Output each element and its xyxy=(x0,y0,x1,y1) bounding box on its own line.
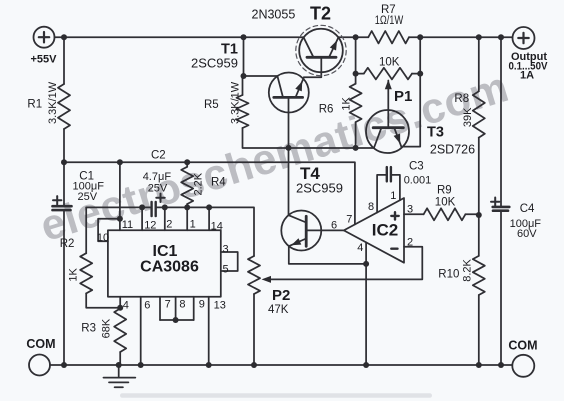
svg-text:R5: R5 xyxy=(204,99,219,111)
svg-text:6: 6 xyxy=(331,220,337,232)
svg-text:R8: R8 xyxy=(454,93,469,105)
svg-text:3.3K/1W: 3.3K/1W xyxy=(47,81,59,124)
svg-text:CA3086: CA3086 xyxy=(140,259,199,276)
svg-text:R2: R2 xyxy=(60,238,75,250)
svg-text:8.2K: 8.2K xyxy=(462,259,474,282)
svg-text:2.2K: 2.2K xyxy=(193,172,205,195)
svg-text:4: 4 xyxy=(123,299,129,311)
svg-text:13: 13 xyxy=(214,300,226,312)
svg-text:R1: R1 xyxy=(27,98,42,110)
svg-text:12: 12 xyxy=(144,219,156,231)
svg-text:2N3055: 2N3055 xyxy=(252,8,296,22)
svg-text:COM: COM xyxy=(508,339,537,353)
svg-text:R3: R3 xyxy=(81,323,96,335)
svg-text:10K: 10K xyxy=(379,57,400,69)
svg-text:11: 11 xyxy=(122,219,133,231)
svg-text:39K: 39K xyxy=(462,107,474,127)
svg-text:4: 4 xyxy=(357,242,363,254)
svg-text:1Ω/1W: 1Ω/1W xyxy=(375,15,404,27)
svg-text:14: 14 xyxy=(211,220,223,232)
svg-text:T2: T2 xyxy=(310,4,331,24)
svg-text:C3: C3 xyxy=(409,161,424,173)
svg-text:+55V: +55V xyxy=(31,54,58,66)
svg-text:R10: R10 xyxy=(438,269,459,281)
svg-text:68K: 68K xyxy=(101,318,113,338)
svg-text:10K: 10K xyxy=(435,197,456,209)
svg-text:4.7μF: 4.7μF xyxy=(143,171,172,183)
svg-text:P2: P2 xyxy=(272,287,290,304)
svg-text:2: 2 xyxy=(166,219,172,231)
svg-text:R6: R6 xyxy=(319,103,334,115)
svg-text:2SC959: 2SC959 xyxy=(296,181,343,196)
svg-text:5: 5 xyxy=(223,264,229,276)
svg-text:2SC959: 2SC959 xyxy=(191,56,238,71)
svg-text:P1: P1 xyxy=(394,88,412,105)
svg-text:8: 8 xyxy=(179,299,185,311)
svg-text:7: 7 xyxy=(346,214,352,226)
svg-text:2SD726: 2SD726 xyxy=(430,143,475,157)
svg-text:C2: C2 xyxy=(151,150,166,162)
svg-text:R4: R4 xyxy=(211,176,226,188)
svg-text:1: 1 xyxy=(390,190,396,202)
svg-text:3: 3 xyxy=(407,204,413,216)
svg-text:T3: T3 xyxy=(427,124,444,140)
svg-text:0.001: 0.001 xyxy=(404,174,432,186)
svg-text:25V: 25V xyxy=(78,191,98,203)
svg-text:1K: 1K xyxy=(68,267,80,281)
svg-text:C4: C4 xyxy=(520,203,535,215)
svg-text:7: 7 xyxy=(165,299,171,311)
svg-text:COM: COM xyxy=(26,337,55,351)
svg-text:IC2: IC2 xyxy=(372,221,398,240)
svg-text:1A: 1A xyxy=(520,69,534,81)
svg-text:25V: 25V xyxy=(148,183,168,195)
svg-text:9: 9 xyxy=(199,299,205,311)
svg-text:47K: 47K xyxy=(268,304,289,316)
svg-text:2: 2 xyxy=(407,236,413,248)
svg-text:1K: 1K xyxy=(341,96,353,110)
svg-text:3.3K/1W: 3.3K/1W xyxy=(230,81,242,124)
svg-text:6: 6 xyxy=(144,299,150,311)
svg-text:60V: 60V xyxy=(517,228,537,240)
svg-text:1: 1 xyxy=(190,219,196,231)
svg-text:3: 3 xyxy=(223,243,229,255)
svg-text:10: 10 xyxy=(97,232,109,244)
svg-text:R9: R9 xyxy=(437,184,452,196)
svg-text:8: 8 xyxy=(368,201,374,213)
